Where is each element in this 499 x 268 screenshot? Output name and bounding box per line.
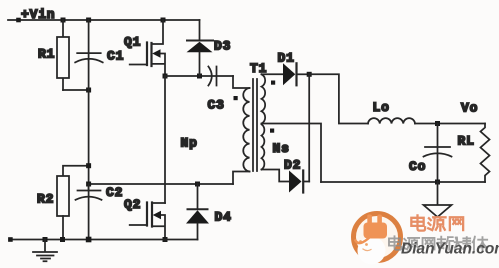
capacitor C2 — [76, 191, 102, 200]
node Q1 drain junction — [161, 18, 166, 23]
svg-text:Q1: Q1 — [124, 35, 141, 50]
diode D3 — [187, 20, 214, 76]
wire switch node to C3 — [165, 75, 233, 77]
node mid rail left junction — [86, 182, 91, 187]
wire C1 to C2 — [88, 60, 90, 191]
watermark text gray overlay — [389, 236, 487, 250]
capacitor C3 — [208, 67, 216, 86]
svg-text:+Vin: +Vin — [21, 7, 55, 22]
node D3 anode junction — [197, 74, 202, 79]
node D1 cathode junction — [307, 72, 312, 77]
node Co bottom junction — [435, 180, 440, 185]
node Q1 source junction — [163, 74, 168, 79]
polarity dot secondary bottom — [270, 129, 274, 133]
svg-text:R2: R2 — [37, 192, 54, 207]
inductor Lo — [368, 118, 415, 123]
wire secondary bottom lead — [262, 170, 290, 182]
resistor R2 — [57, 176, 69, 240]
svg-text:D1: D1 — [278, 51, 295, 66]
svg-text:Ns: Ns — [273, 141, 290, 156]
svg-text:Q2: Q2 — [124, 197, 141, 212]
node R2 branch junction — [86, 163, 91, 168]
wire D1-D2 cathode link — [308, 74, 310, 181]
wire +Vin top rail — [8, 19, 200, 21]
node R2 bottom junction — [60, 237, 65, 242]
wire mid rail (cap midpoint to primary) — [89, 183, 233, 185]
terminal +Vin input — [16, 18, 21, 23]
svg-text:R1: R1 — [38, 47, 55, 62]
svg-text:RL: RL — [458, 134, 475, 149]
wire output return rail — [321, 181, 485, 183]
wire R2 branch — [63, 166, 89, 176]
svg-text:D4: D4 — [215, 210, 232, 225]
wire Lo to RL — [415, 123, 485, 125]
transformer T1 core — [253, 79, 257, 171]
transformer T1 secondary bottom winding — [262, 124, 265, 169]
wire C2 to ground rail — [88, 184, 90, 240]
wire C3 to T1 primary top — [233, 76, 250, 88]
transformer T1 secondary top winding — [262, 74, 266, 123]
transistor Q2 — [130, 203, 165, 240]
ground triangle output — [424, 182, 452, 217]
node C1 top junction — [86, 18, 91, 23]
wire secondary top lead — [262, 73, 284, 75]
resistor RL zigzag — [481, 124, 490, 183]
diode D4 — [186, 184, 209, 240]
svg-text:Vo: Vo — [461, 101, 478, 116]
capacitor Co — [424, 124, 452, 183]
svg-text:Lo: Lo — [373, 100, 390, 115]
svg-text:D3: D3 — [214, 39, 231, 54]
node earth ground junction — [43, 237, 48, 242]
svg-text:C2: C2 — [106, 185, 123, 200]
node R1 top junction — [61, 18, 66, 23]
diode D1 — [283, 63, 309, 85]
svg-text:D2: D2 — [284, 158, 301, 173]
transformer T1 primary winding — [243, 88, 249, 171]
ground earth symbol — [33, 240, 57, 262]
node R1-C1 junction — [86, 88, 91, 93]
svg-text:DianYuan.com: DianYuan.com — [401, 241, 499, 258]
node D4 cathode junction — [195, 182, 200, 187]
transistor Q1 — [130, 20, 165, 76]
polarity dot primary — [234, 96, 238, 100]
svg-text:Np: Np — [181, 136, 198, 151]
wire center tap — [262, 124, 322, 183]
watermark plug icon — [356, 215, 388, 244]
wire D1 junction to Lo — [309, 74, 368, 123]
watermark face blob — [358, 237, 386, 265]
node Vo junction — [435, 121, 440, 126]
diode D2 — [289, 171, 309, 193]
terminal ground rail left — [8, 237, 13, 242]
polarity dot secondary top — [271, 81, 275, 85]
node Q2 source junction — [163, 237, 168, 242]
wire T1 primary bottom lead — [233, 172, 250, 185]
svg-text:Co: Co — [409, 159, 426, 174]
watermark logo ring — [354, 214, 401, 261]
wire R1 bottom to C1 line — [63, 89, 89, 91]
svg-text:C1: C1 — [107, 49, 124, 64]
wire ground rail — [10, 239, 197, 241]
wire switch node vertical — [164, 76, 166, 203]
svg-text:C3: C3 — [208, 98, 225, 113]
resistor R1 — [57, 20, 69, 90]
node C2 bottom junction — [86, 237, 92, 243]
watermark text dianyuanwang orange — [411, 215, 463, 230]
capacitor C1 — [75, 20, 103, 62]
